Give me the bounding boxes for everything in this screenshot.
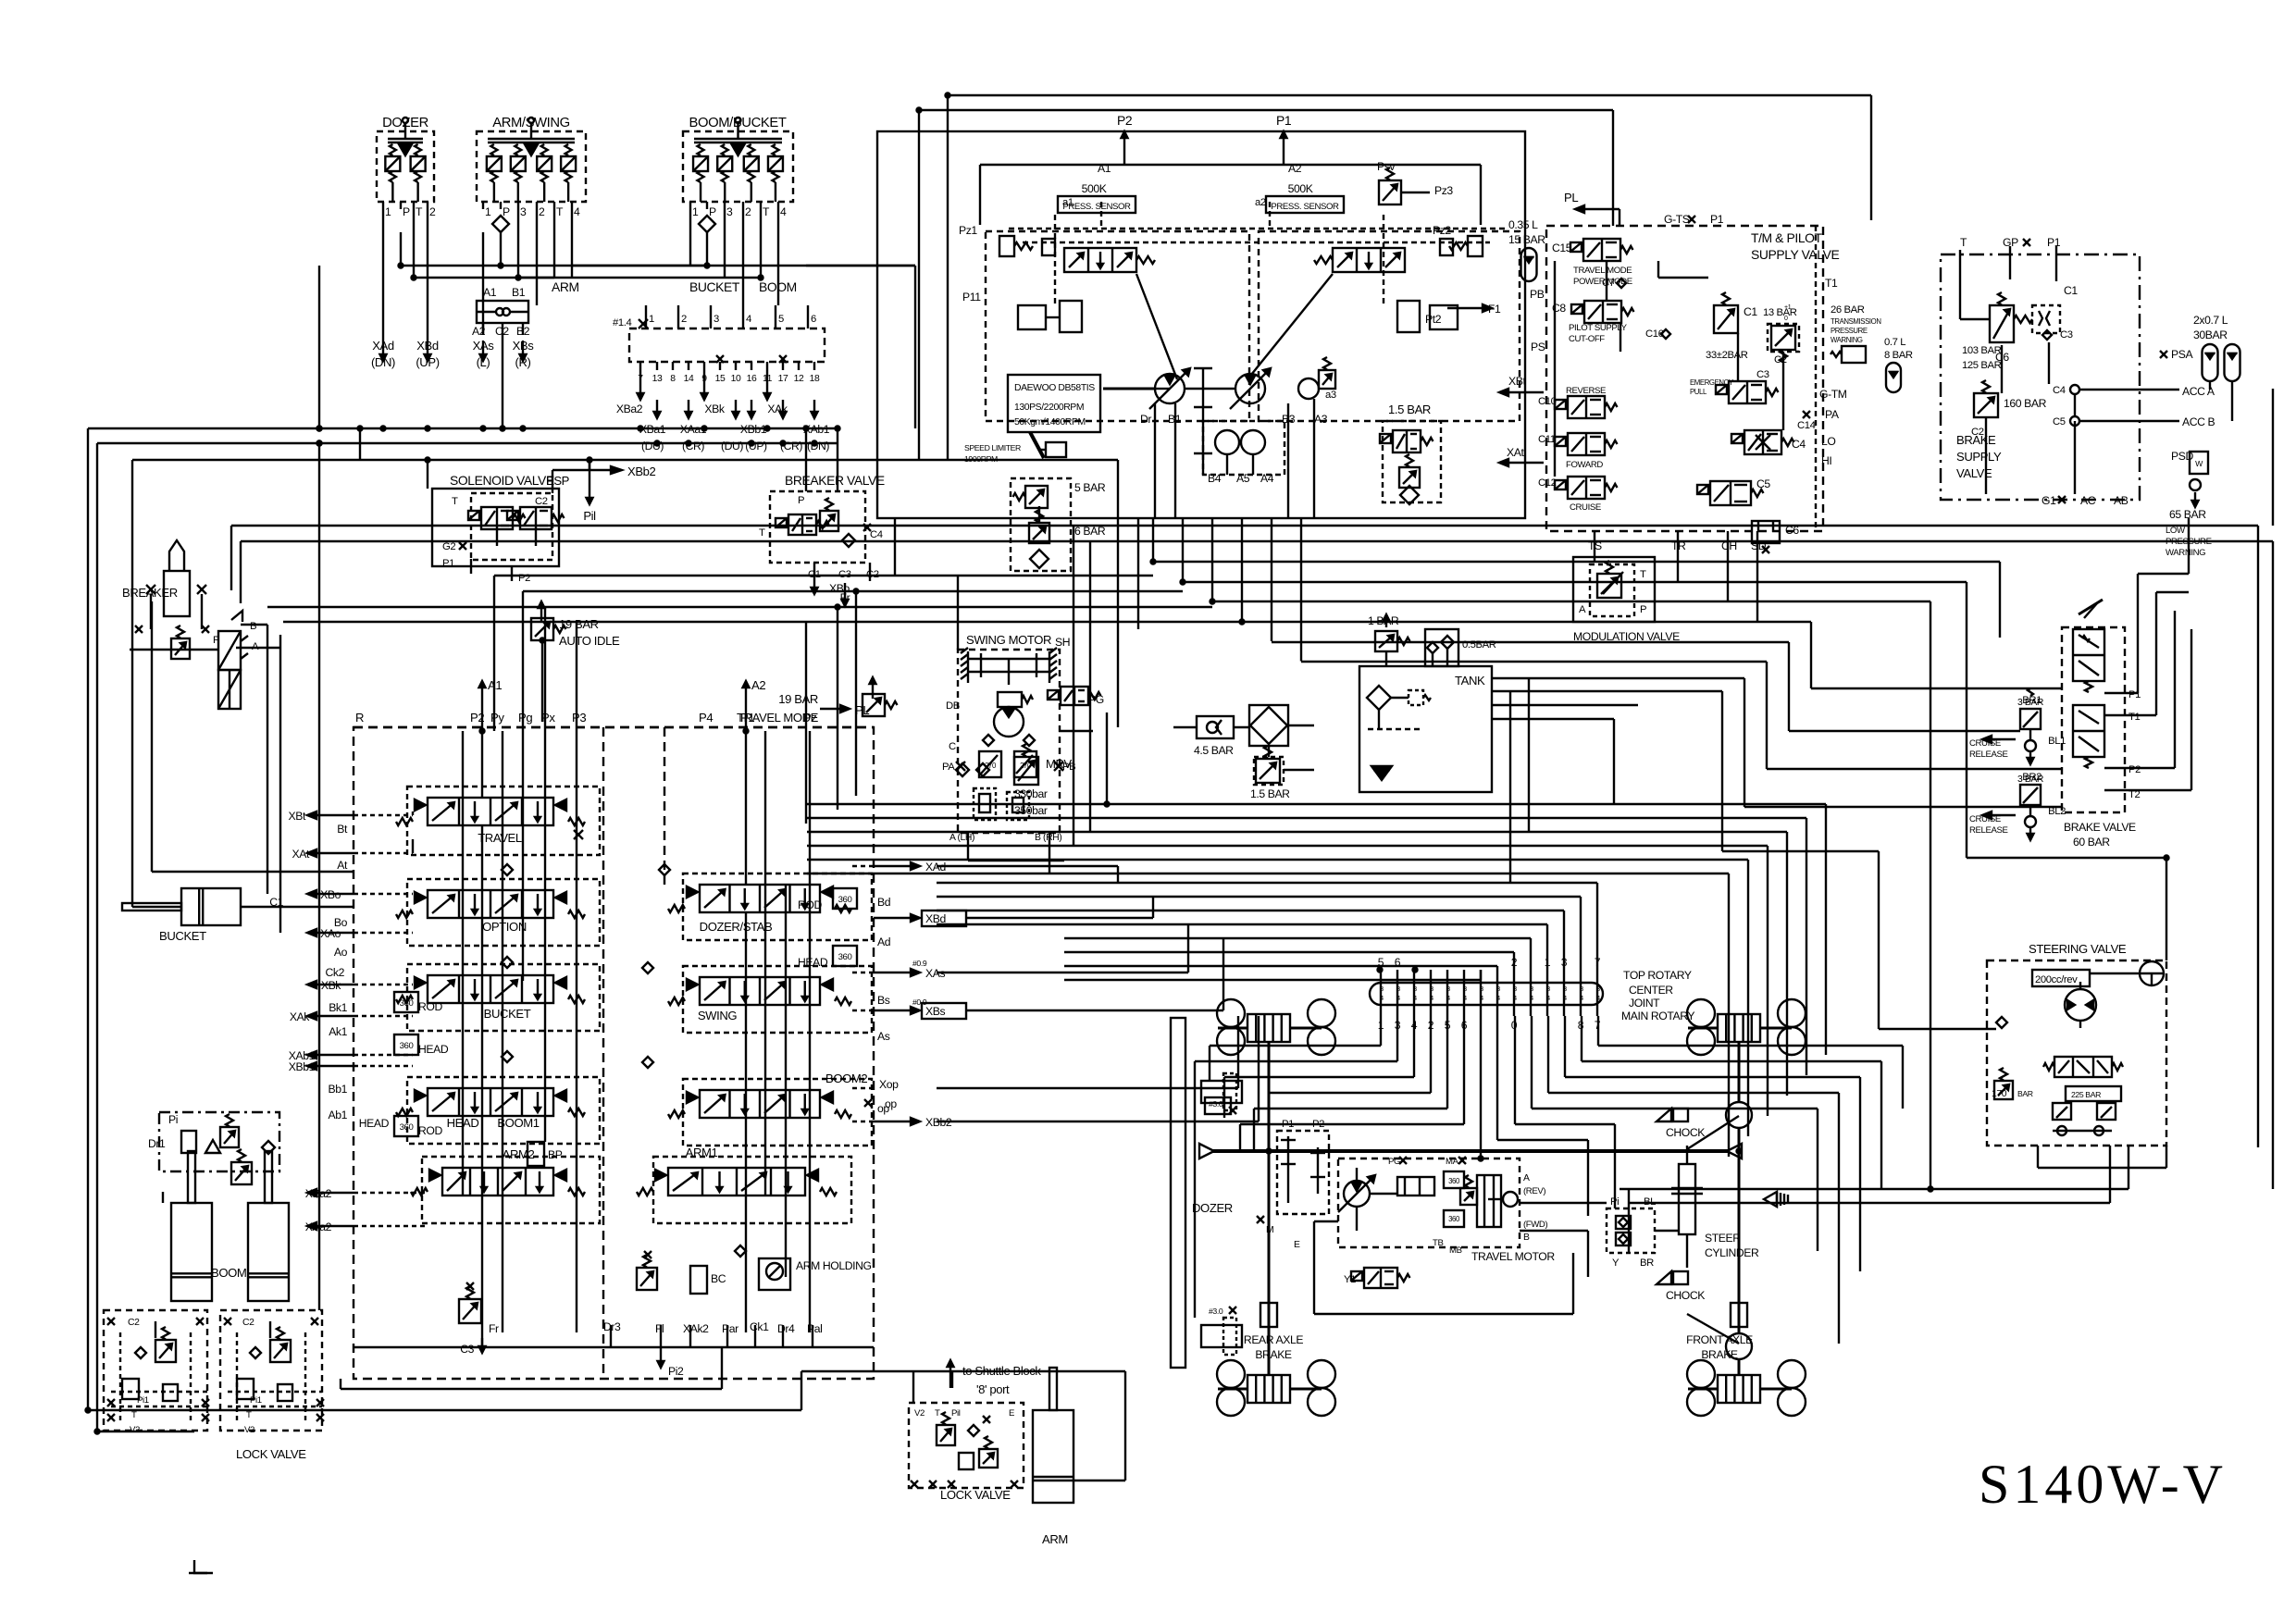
engine label box DAEWOO (1008, 375, 1100, 432)
svg-text:Pz1: Pz1 (959, 224, 977, 237)
drive shaft (1199, 1144, 1742, 1158)
lock valve label (236, 1447, 306, 1461)
svg-text:3 BAR: 3 BAR (2017, 698, 2044, 708)
svg-text:MRV: MRV (1046, 757, 1072, 771)
svg-text:XBt: XBt (1508, 375, 1526, 388)
svg-text:4: 4 (1396, 996, 1400, 1002)
wire TM bottom drops (1595, 531, 1757, 622)
arm holding valve (735, 1245, 872, 1290)
svg-text:3 BAR: 3 BAR (2017, 774, 2044, 785)
svg-text:STEERING VALVE: STEERING VALVE (2029, 942, 2127, 956)
svg-text:3: 3 (714, 314, 719, 325)
svg-text:T: T (452, 496, 458, 507)
svg-text:V2: V2 (244, 1425, 254, 1435)
svg-text:LO: LO (1821, 435, 1835, 448)
travel motor internals (1338, 1168, 1518, 1231)
svg-text:BAR: BAR (2017, 1089, 2033, 1098)
svg-text:3: 3 (726, 205, 733, 218)
svg-text:REAR AXLE: REAR AXLE (1244, 1333, 1303, 1346)
pump shaft gears (1103, 357, 1336, 453)
svg-text:360: 360 (838, 895, 852, 905)
svg-text:B1: B1 (512, 286, 526, 299)
svg-text:RELEASE: RELEASE (1969, 825, 2007, 836)
breaker valve block (759, 473, 885, 606)
svg-text:0: 0 (1784, 316, 1788, 322)
svg-text:B (RH): B (RH) (1035, 833, 1061, 843)
svg-text:CRUISE: CRUISE (1570, 502, 1601, 513)
valve C5 (1697, 477, 1770, 505)
pump regulator left internals (999, 236, 1190, 409)
node header junctions (399, 264, 763, 280)
svg-text:P2: P2 (2128, 764, 2141, 775)
svg-text:C7: C7 (1602, 278, 1615, 289)
boom line check valve (163, 1141, 275, 1203)
svg-text:Py: Py (490, 711, 504, 725)
svg-text:8 BAR: 8 BAR (1884, 350, 1913, 361)
svg-text:4: 4 (1446, 996, 1450, 1002)
svg-text:4: 4 (574, 205, 580, 218)
svg-text:DOZER: DOZER (1192, 1201, 1233, 1215)
svg-text:19 BAR: 19 BAR (559, 617, 599, 631)
svg-text:13 BAR: 13 BAR (1763, 307, 1797, 318)
TM pilot supply valve box (1546, 226, 1839, 531)
svg-text:C4: C4 (870, 529, 883, 540)
svg-text:BOOM: BOOM (211, 1266, 246, 1280)
svg-text:PB: PB (1530, 288, 1545, 301)
svg-text:Fl: Fl (655, 1322, 664, 1335)
svg-text:3: 3 (1380, 986, 1384, 993)
svg-text:BR: BR (1640, 1258, 1654, 1269)
wire brake valve right ports (2104, 518, 2191, 790)
svg-text:200cc/rev: 200cc/rev (2035, 974, 2078, 985)
svg-text:(UP): (UP) (416, 355, 439, 369)
svg-text:Dr1: Dr1 (148, 1137, 166, 1150)
wire PL arrow TM (1564, 191, 1620, 226)
svg-text:360: 360 (400, 998, 414, 1009)
pump regulator left dashed box (959, 162, 1249, 421)
front axle bottom wheels (1686, 1303, 1806, 1416)
svg-text:PA: PA (942, 762, 955, 773)
svg-text:HEAD: HEAD (798, 956, 828, 969)
svg-text:Ck2: Ck2 (326, 966, 345, 979)
svg-text:3: 3 (1430, 986, 1433, 993)
svg-text:C2: C2 (128, 1318, 140, 1328)
wire below rotary staircase left (1195, 1016, 1464, 1318)
MCV dashed boundary (354, 727, 874, 1379)
svg-text:XBb2: XBb2 (627, 465, 656, 478)
cruise release 2 (1969, 774, 2044, 840)
svg-text:Ad: Ad (877, 935, 890, 948)
svg-text:Dr: Dr (1140, 413, 1151, 426)
svg-text:XAt: XAt (1507, 446, 1524, 459)
svg-text:A: A (1579, 604, 1586, 615)
svg-text:1.5 BAR: 1.5 BAR (1250, 787, 1290, 800)
svg-text:TRAVEL MOTOR: TRAVEL MOTOR (1471, 1250, 1555, 1263)
rear axle shaft (1268, 1042, 1271, 1375)
svg-text:a3: a3 (1325, 390, 1336, 401)
svg-text:3: 3 (1530, 986, 1533, 993)
svg-text:C2: C2 (242, 1318, 254, 1328)
svg-text:BRAKE: BRAKE (1255, 1348, 1292, 1361)
svg-text:AUTO IDLE: AUTO IDLE (559, 634, 620, 648)
wire breaker drops (152, 601, 354, 933)
svg-text:RELEASE: RELEASE (1969, 750, 2007, 760)
spool BUCKET (396, 975, 585, 1021)
svg-text:CHOCK: CHOCK (1666, 1289, 1705, 1302)
svg-text:4: 4 (1480, 996, 1483, 1002)
svg-text:170: 170 (1992, 1089, 2007, 1099)
svg-text:LOCK VALVE: LOCK VALVE (236, 1447, 306, 1461)
svg-text:HEAD: HEAD (359, 1117, 390, 1130)
pilot valve DOZER (377, 116, 436, 218)
svg-text:CENTER: CENTER (1629, 984, 1673, 997)
valve C10 reverse (1499, 375, 1618, 418)
svg-text:C3: C3 (1756, 369, 1769, 380)
pump feedback linkage (1136, 274, 1333, 518)
swing crossover reliefs (942, 751, 1075, 777)
rotary joint pipes (1378, 956, 1601, 1032)
svg-text:DAEWOO DB58TIS: DAEWOO DB58TIS (1014, 383, 1095, 393)
svg-text:4: 4 (1380, 996, 1384, 1002)
svg-text:XBt: XBt (289, 810, 306, 823)
wire mid verticals 1160 (1074, 526, 1090, 846)
svg-text:360: 360 (838, 952, 852, 962)
swing brake + motor (946, 687, 1104, 752)
TM box bottom port labels (1588, 277, 1838, 552)
svg-text:T: T (246, 1410, 252, 1420)
valve C8 pilot supply cutoff (1531, 278, 1670, 353)
svg-text:P1: P1 (1710, 213, 1724, 226)
svg-text:WARNING: WARNING (2166, 548, 2205, 558)
svg-text:XBa2: XBa2 (616, 403, 643, 415)
svg-text:AB: AB (2114, 494, 2128, 507)
wire left bus horizontal (88, 427, 1118, 461)
svg-text:2x0.7 L: 2x0.7 L (2193, 314, 2228, 327)
port arrows XAd XBd XAs XBs (371, 279, 797, 369)
svg-text:Bb1: Bb1 (329, 1083, 348, 1096)
svg-text:TANK: TANK (1455, 674, 1485, 688)
valve C3 emergency pull (1690, 369, 1847, 431)
boom1 drop check (459, 864, 670, 1323)
wire steering valve bottom (2038, 1146, 2166, 1168)
svg-text:Pi1: Pi1 (250, 1395, 262, 1406)
svg-text:PS: PS (1531, 341, 1545, 353)
breather 0.5BAR (1425, 629, 1496, 666)
valve C15 travel mode (1552, 213, 1724, 287)
relief 1.5 BAR return (1250, 746, 1314, 800)
junction dots global (86, 93, 2169, 1434)
svg-text:E: E (1009, 1408, 1014, 1419)
steering valve box (1987, 942, 2166, 1146)
MRV main relief (956, 744, 1072, 817)
svg-text:30BAR: 30BAR (2193, 328, 2228, 341)
wire travel motor loop (1314, 1203, 1679, 1314)
wire Pil arrow (583, 460, 596, 523)
svg-text:4: 4 (1596, 996, 1600, 1002)
svg-text:P1: P1 (442, 558, 454, 569)
svg-text:BUCKET: BUCKET (484, 1007, 531, 1021)
brake shuttle Pi BL Y BR (1607, 1196, 1656, 1269)
svg-text:FOWARD: FOWARD (1566, 460, 1603, 470)
svg-text:Bt: Bt (337, 823, 348, 836)
svg-text:CRUISE: CRUISE (1969, 738, 2001, 749)
accumulators 2x0.7L (2160, 314, 2240, 421)
svg-text:HEAD: HEAD (418, 1043, 449, 1056)
spool ARM1 (637, 1146, 837, 1196)
svg-text:Ab1: Ab1 (329, 1109, 348, 1121)
svg-text:(CR): (CR) (682, 440, 704, 452)
accumulator 0.35L 15 BAR (1508, 218, 1545, 301)
svg-text:P: P (503, 205, 510, 218)
svg-text:SOLENOID VALVE: SOLENOID VALVE (450, 473, 554, 488)
svg-text:REVERSE: REVERSE (1566, 386, 1606, 396)
svg-text:C3: C3 (2060, 329, 2073, 341)
svg-text:Bk1: Bk1 (329, 1001, 347, 1014)
svg-text:op: op (885, 1097, 897, 1110)
lock valve right box (220, 1310, 322, 1435)
svg-text:MB: MB (1449, 1245, 1462, 1256)
svg-text:Par: Par (722, 1322, 738, 1335)
svg-text:350bar: 350bar (1014, 804, 1048, 817)
svg-text:T/M & PILOT: T/M & PILOT (1751, 230, 1823, 245)
svg-text:XAs: XAs (473, 339, 495, 353)
swing gearbox (961, 648, 1057, 685)
svg-text:HI: HI (1821, 454, 1831, 467)
svg-text:ARM: ARM (552, 279, 579, 294)
svg-text:3: 3 (1596, 986, 1600, 993)
wire left edge verticals (88, 266, 319, 1431)
svg-text:3: 3 (1496, 986, 1500, 993)
svg-text:16: 16 (747, 374, 757, 384)
valve C6 brake (1962, 284, 2078, 371)
MCV left port arrows (307, 811, 354, 1230)
svg-text:W: W (2195, 459, 2203, 468)
svg-text:V2: V2 (130, 1425, 140, 1435)
valve BP (527, 1142, 563, 1166)
svg-text:BREAKER VALVE: BREAKER VALVE (785, 473, 885, 488)
svg-text:PRESS. SENSOR: PRESS. SENSOR (1271, 202, 1339, 212)
svg-text:ARM: ARM (1042, 1532, 1068, 1546)
svg-text:C2: C2 (1774, 354, 1787, 365)
svg-text:XBs: XBs (513, 339, 535, 353)
svg-text:15 BAR: 15 BAR (1508, 233, 1545, 246)
svg-text:Ao: Ao (334, 946, 348, 959)
svg-text:T: T (759, 527, 765, 539)
svg-text:T: T (935, 1408, 940, 1419)
svg-text:15: 15 (715, 374, 726, 384)
front axle shaft (1726, 1042, 1752, 1375)
svg-text:4: 4 (1530, 996, 1533, 1002)
speed limiter (964, 432, 1066, 464)
svg-text:T: T (1960, 236, 1967, 249)
svg-text:1: 1 (692, 205, 699, 218)
svg-text:330bar: 330bar (1014, 787, 1048, 800)
svg-text:Pi: Pi (168, 1113, 178, 1126)
relief C2 160bar (1971, 380, 2047, 438)
valve 19 BAR travel mode (737, 677, 898, 725)
wire top bus to TM valve (895, 95, 1871, 576)
steer cylinder (1671, 1116, 1788, 1344)
svg-text:P2: P2 (1117, 113, 1133, 128)
svg-text:TRANSMISSION: TRANSMISSION (1831, 317, 1881, 326)
MCV left port labels (269, 810, 348, 1233)
pump regulator right internals (1230, 236, 1483, 409)
svg-text:(DN): (DN) (807, 440, 829, 452)
svg-text:12: 12 (794, 374, 804, 384)
return check 4.5 BAR (1173, 716, 1249, 757)
svg-text:Ak1: Ak1 (329, 1025, 347, 1038)
svg-text:T: T (556, 205, 564, 218)
svg-text:T: T (131, 1410, 137, 1420)
svg-text:C12: C12 (1538, 477, 1557, 489)
svg-text:2: 2 (681, 314, 687, 325)
svg-text:SUPPLY: SUPPLY (1956, 450, 2002, 464)
svg-text:WARNING: WARNING (1831, 336, 1863, 344)
svg-text:4: 4 (1463, 996, 1467, 1002)
svg-text:13: 13 (652, 374, 663, 384)
rod head 360 cartridges right column (798, 888, 857, 969)
bucket cylinder (122, 888, 354, 943)
valve BC (637, 1251, 726, 1294)
svg-text:3: 3 (1513, 986, 1517, 993)
svg-text:C1: C1 (2064, 284, 2078, 297)
svg-text:TRAVEL: TRAVEL (478, 831, 522, 845)
svg-text:3: 3 (1413, 986, 1417, 993)
dozer cylinders (1201, 1073, 1242, 1355)
svg-text:'8' port: '8' port (976, 1382, 1010, 1396)
transmission gears (1257, 1119, 1329, 1250)
svg-text:(DU): (DU) (641, 440, 664, 452)
wire P2 arrow (1117, 113, 1133, 165)
svg-text:SWING MOTOR: SWING MOTOR (966, 633, 1051, 647)
svg-text:M: M (1266, 1225, 1273, 1235)
svg-text:5: 5 (778, 314, 784, 325)
svg-text:BOOM2: BOOM2 (825, 1072, 867, 1085)
travel motor box (1338, 1157, 1555, 1263)
svg-text:C5: C5 (2053, 416, 2066, 427)
svg-text:4.5 BAR: 4.5 BAR (1194, 744, 1234, 757)
wire A1 A2 feeds (479, 678, 766, 885)
relief 5BAR 6BAR (1011, 478, 1106, 571)
svg-text:P3: P3 (572, 711, 586, 725)
wire middle band B rotary feeds (937, 883, 1597, 980)
svg-text:Pi1: Pi1 (137, 1395, 149, 1406)
relief C1 33bar (1706, 292, 1757, 361)
svg-text:CYLINDER: CYLINDER (1705, 1246, 1759, 1259)
svg-text:B: B (250, 621, 256, 632)
svg-text:Xop: Xop (879, 1078, 899, 1091)
steering wheel (2090, 961, 2164, 985)
svg-text:PG: PG (1388, 1157, 1400, 1167)
svg-text:5 BAR: 5 BAR (1074, 481, 1106, 494)
wire pilot valve drops (383, 209, 915, 335)
valve 19 BAR AUTO IDLE (531, 601, 620, 722)
valve C12 cruise (1499, 446, 1618, 513)
svg-text:Fr: Fr (840, 591, 850, 604)
svg-text:Y1: Y1 (1344, 1274, 1356, 1285)
svg-text:PRESSURE: PRESSURE (1831, 327, 1868, 335)
svg-text:(REV): (REV) (1523, 1186, 1545, 1196)
svg-text:LOCK VALVE: LOCK VALVE (940, 1488, 1011, 1502)
svg-text:C4: C4 (2053, 385, 2066, 396)
wire bottom left horizontals (88, 1347, 1125, 1481)
svg-text:4: 4 (746, 314, 751, 325)
svg-text:TRAVEL MODE: TRAVEL MODE (1573, 266, 1632, 276)
svg-text:#0.9: #0.9 (912, 959, 927, 968)
svg-text:A: A (1523, 1173, 1530, 1183)
svg-text:17: 17 (778, 374, 788, 384)
svg-text:Fr: Fr (489, 1322, 499, 1335)
svg-text:DOZER/STAB: DOZER/STAB (700, 920, 773, 934)
svg-text:Pz3: Pz3 (1434, 184, 1453, 197)
MCV bottom port labels (460, 1320, 822, 1378)
svg-text:4: 4 (1513, 996, 1517, 1002)
svg-text:C15: C15 (1552, 242, 1572, 254)
svg-text:T1: T1 (1825, 277, 1838, 290)
svg-text:(R): (R) (515, 355, 531, 369)
svg-text:19 BAR: 19 BAR (778, 692, 818, 706)
svg-text:8: 8 (670, 374, 676, 384)
brake acc ports (2053, 385, 2215, 428)
swing motor box (958, 633, 1070, 833)
svg-text:103 BAR: 103 BAR (1962, 345, 2002, 356)
return filter (1249, 705, 1314, 746)
svg-text:BUCKET: BUCKET (689, 279, 740, 294)
svg-text:ROD: ROD (418, 1124, 442, 1137)
spool ARM2 (411, 1147, 585, 1196)
svg-text:P: P (1640, 604, 1646, 615)
title S140W-V (1979, 1454, 2227, 1515)
svg-text:OPTION: OPTION (482, 920, 527, 934)
svg-text:26 BAR: 26 BAR (1831, 304, 1865, 316)
svg-text:ROD: ROD (418, 1000, 442, 1013)
svg-text:A3: A3 (1314, 413, 1328, 426)
steering spool (1996, 1017, 2123, 1077)
wire MCV bottom drains (354, 1325, 874, 1347)
svg-text:3: 3 (1563, 986, 1567, 993)
svg-text:A (LH): A (LH) (949, 833, 974, 843)
svg-text:a2: a2 (1255, 197, 1266, 208)
svg-text:BRAKE: BRAKE (1701, 1348, 1738, 1361)
svg-text:a1: a1 (1062, 197, 1074, 208)
lock valve 2 box (909, 1403, 1024, 1502)
swing makeup valves (949, 788, 1061, 843)
svg-text:BRAKE VALVE: BRAKE VALVE (2064, 821, 2136, 834)
wire F1 to right (1447, 303, 2273, 526)
svg-text:4: 4 (780, 205, 787, 218)
svg-text:Psv: Psv (1377, 160, 1396, 173)
svg-text:1: 1 (485, 205, 491, 218)
tank (1359, 666, 1492, 792)
svg-text:LOW: LOW (2166, 526, 2186, 536)
svg-text:FRONT AXLE: FRONT AXLE (1686, 1333, 1753, 1346)
svg-text:33±2BAR: 33±2BAR (1706, 350, 1748, 361)
spool DOZER/STAB (668, 885, 851, 934)
svg-text:3: 3 (520, 205, 527, 218)
boom cylinder left (171, 1151, 212, 1301)
relief 1.5 BAR pump (1380, 403, 1441, 504)
svg-text:S140W-V: S140W-V (1979, 1454, 2227, 1515)
wire MCV top dash line (354, 726, 874, 728)
svg-text:Ck1: Ck1 (750, 1320, 769, 1333)
pilot valve BOOM/BUCKET (683, 116, 793, 232)
svg-text:3: 3 (1480, 986, 1483, 993)
svg-text:0.7 L: 0.7 L (1884, 337, 1905, 348)
gear pump pair (1203, 421, 1285, 485)
shuttle note (948, 1360, 1042, 1396)
svg-text:#3.0: #3.0 (1209, 1307, 1223, 1316)
dozer blade (1171, 1018, 1233, 1368)
